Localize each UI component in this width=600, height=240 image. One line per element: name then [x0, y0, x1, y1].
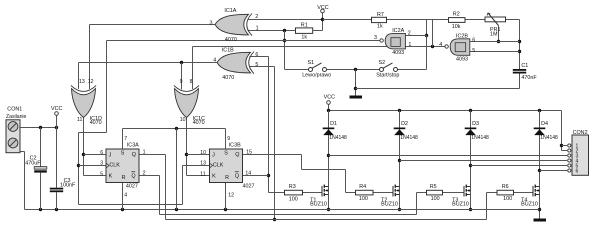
junction C1 bottom net — [354, 87, 357, 90]
junction T2 drain tap — [398, 159, 401, 162]
junction T4 drain tap — [538, 169, 541, 172]
svg-text:4093: 4093 — [456, 56, 468, 62]
junction rail D2 — [398, 109, 401, 112]
svg-text:K: K — [109, 174, 113, 180]
wire to IC3A J pin6 — [84, 154, 107, 156]
svg-text:13: 13 — [79, 79, 85, 85]
transistor T3 BUZ10 — [452, 185, 470, 208]
resistor R4 100 — [356, 184, 374, 202]
wire down to IC1C pin9 — [181, 63, 183, 90]
junction clock at IC3A CLK — [77, 164, 80, 167]
wire T1 drain to CON2 pin3 — [329, 155, 568, 157]
svg-text:4027: 4027 — [243, 184, 255, 190]
wire C2 top lead — [40, 128, 42, 167]
svg-text:D2: D2 — [401, 121, 408, 127]
wire R4 to T2 gate — [373, 192, 393, 194]
svg-text:S1: S1 — [308, 60, 315, 66]
junction rail D1 — [327, 109, 330, 112]
wire VCC1 stub — [56, 115, 58, 127]
wire CON2 pin1 stub — [562, 145, 568, 147]
wire IC1B pin4 to IC1D pin13 — [79, 63, 219, 90]
connector CON1 Zasilanie — [6, 106, 27, 152]
svg-text:100: 100 — [359, 196, 368, 202]
wire S1 to S2 — [327, 69, 380, 71]
svg-text:10: 10 — [180, 117, 186, 123]
junction rail D4 — [538, 109, 541, 112]
svg-text:14: 14 — [245, 171, 251, 177]
svg-text:1M: 1M — [490, 32, 498, 38]
svg-text:R1: R1 — [301, 23, 308, 29]
junction IC2A pin2 — [425, 34, 428, 37]
svg-text:11: 11 — [200, 171, 205, 177]
wire S chain down to ground bus — [176, 129, 178, 210]
diode D4 1N4148 — [534, 121, 558, 141]
svg-text:100: 100 — [289, 196, 298, 202]
svg-text:Q: Q — [131, 173, 135, 179]
wire T2 drain to CON2 pin4 — [400, 160, 568, 162]
svg-text:R6: R6 — [502, 184, 509, 190]
svg-text:13: 13 — [200, 160, 206, 166]
junction wiper on pin6 row — [497, 40, 500, 43]
svg-text:D3: D3 — [472, 121, 479, 127]
wire IC3B R pin12 to ground — [225, 183, 227, 210]
svg-text:IC2A: IC2A — [392, 28, 404, 34]
svg-text:4070: 4070 — [225, 37, 237, 43]
resistor R1 1k — [296, 23, 313, 41]
svg-text:IC1A: IC1A — [224, 8, 236, 14]
junction ground bus — [121, 208, 124, 211]
wire clock to IC3A CLK pin3 — [79, 165, 107, 167]
wire R5 to T3 gate — [443, 192, 465, 194]
svg-text:Q: Q — [132, 152, 136, 158]
svg-text:6: 6 — [100, 150, 103, 156]
resistor R5 100 — [427, 184, 443, 202]
junction ground bus — [55, 208, 58, 211]
junction IC3B J node — [185, 153, 188, 156]
svg-text:4070: 4070 — [193, 120, 205, 126]
svg-text:CON2: CON2 — [573, 130, 588, 136]
junction S chain ground branch — [175, 127, 178, 130]
wire D4/T4 column vertical — [539, 111, 541, 219]
wire R3 to T1 gate — [303, 192, 323, 194]
svg-text:R5: R5 — [430, 184, 437, 190]
svg-text:100nF: 100nF — [60, 182, 76, 188]
svg-text:10k: 10k — [452, 24, 461, 30]
wire C3 bottom lead — [56, 192, 58, 209]
svg-text:470uF: 470uF — [25, 160, 41, 166]
svg-text:J: J — [109, 152, 112, 158]
wire to IC3B J pin10 — [187, 154, 210, 156]
junction IC3A J node — [82, 153, 85, 156]
svg-text:R: R — [122, 175, 126, 181]
junction C2 top — [39, 126, 42, 129]
svg-text:C1: C1 — [521, 63, 528, 69]
svg-text:Start/stop: Start/stop — [376, 73, 399, 79]
svg-text:BUZ10: BUZ10 — [452, 201, 469, 207]
svg-text:100: 100 — [503, 196, 512, 202]
svg-text:100: 100 — [431, 196, 440, 202]
vcc symbol (left) — [51, 106, 62, 115]
svg-text:R7: R7 — [377, 12, 384, 18]
svg-text:1N4148: 1N4148 — [540, 135, 558, 141]
svg-text:Q: Q — [235, 152, 239, 158]
junction clock line at x284.5 — [283, 39, 286, 42]
svg-text:8: 8 — [190, 79, 193, 85]
wire IC3A Q_bar pin2 to bus — [139, 176, 427, 215]
svg-text:3: 3 — [374, 35, 377, 41]
resistor R6 100 — [497, 184, 514, 202]
wire C3 top lead — [56, 128, 58, 188]
svg-text:4: 4 — [213, 58, 216, 64]
wire R7 right to R2 — [387, 19, 449, 21]
switch S2 — [376, 60, 399, 79]
junction R2 branch on pin4 net — [431, 45, 434, 48]
junction T1 drain tap — [327, 154, 330, 157]
svg-text:R2: R2 — [453, 12, 460, 18]
svg-text:4027: 4027 — [126, 184, 138, 190]
xor gate IC1A (4070) — [210, 8, 259, 43]
svg-text:3: 3 — [100, 160, 103, 166]
diode D1 1N4148 — [323, 121, 347, 141]
nand gate IC2A (4093) — [374, 28, 411, 56]
svg-text:5: 5 — [472, 48, 475, 54]
svg-text:J: J — [212, 152, 215, 158]
svg-text:K: K — [212, 174, 216, 180]
svg-text:CLK: CLK — [109, 162, 120, 168]
xor gate IC1B (4070) — [213, 48, 258, 82]
connector CON2 — [568, 130, 589, 175]
wire IC1A pin2 to VCC node — [248, 19, 323, 21]
svg-text:6: 6 — [576, 168, 579, 174]
svg-text:4093: 4093 — [392, 50, 404, 56]
wire IC2B pin4 to IC2A pin1 and IC1C pin8 — [193, 47, 445, 90]
wire R1 node to S1 — [285, 69, 309, 71]
svg-text:4070: 4070 — [222, 75, 234, 81]
diode D3 1N4148 — [465, 121, 489, 141]
svg-text:IC3A: IC3A — [127, 143, 139, 149]
svg-text:2: 2 — [143, 171, 146, 177]
wire R1 node down to S1 — [284, 31, 286, 70]
wire switch common to ground bar — [355, 70, 357, 96]
transistor T4 BUZ10 — [521, 185, 539, 208]
svg-text:IC2B: IC2B — [456, 33, 468, 39]
wire PR1 wiper down — [498, 26, 500, 42]
svg-text:4070: 4070 — [90, 120, 102, 126]
svg-text:4: 4 — [439, 42, 442, 48]
junction C1 net at pin5 row — [518, 50, 521, 53]
svg-text:1N4148: 1N4148 — [329, 135, 347, 141]
nand gate IC2B (4093) — [439, 33, 475, 62]
flip-flop IC3B (4027) — [200, 136, 254, 198]
wire D1/T1 column vertical — [328, 111, 330, 210]
wire R2 left branch down — [432, 20, 434, 47]
junction R1 left node — [283, 29, 286, 32]
svg-text:IC3B: IC3B — [229, 143, 241, 149]
svg-text:CLK: CLK — [213, 162, 224, 168]
junction T3 source on ground bus — [469, 208, 472, 211]
wire IC3A Q pin1 to QA bus — [139, 155, 497, 220]
junction C1 net at pin6 row — [518, 40, 521, 43]
wire S2 right up to IC2A pin2 net — [398, 36, 427, 70]
ground bar (bottom right) — [534, 219, 547, 222]
flip-flop IC3A (4027) — [100, 136, 145, 198]
wire down to IC2A pin2 — [426, 20, 428, 36]
junction ground bus — [224, 208, 227, 211]
wire T3 drain to CON2 pin5 — [471, 165, 568, 167]
junction QA bus at pin5 — [273, 218, 276, 221]
svg-text:3: 3 — [210, 21, 213, 27]
switch S1 — [302, 60, 331, 79]
junction VCC node top — [321, 18, 324, 21]
resistor R7 1k — [372, 12, 387, 30]
junction ground bus — [39, 208, 42, 211]
capacitor C3 100nF — [50, 178, 76, 192]
wire IC3B Q_bar pin14 — [243, 175, 269, 177]
resistor R2 10k — [449, 12, 466, 31]
potentiometer PR1 1M — [485, 13, 506, 38]
capacitor C2 470uF — [25, 155, 47, 172]
svg-text:IC1B: IC1B — [222, 48, 234, 54]
svg-text:2: 2 — [408, 30, 411, 36]
wire IC1A pin1 to R1 — [248, 30, 296, 32]
svg-text:Lewo/prawo: Lewo/prawo — [302, 73, 331, 79]
svg-text:S: S — [224, 151, 228, 157]
svg-text:1N4148: 1N4148 — [400, 135, 418, 141]
wire C1 bottom return — [356, 73, 520, 89]
svg-text:1N4148: 1N4148 — [471, 135, 489, 141]
svg-text:S2: S2 — [379, 60, 386, 66]
svg-text:7: 7 — [124, 136, 127, 142]
svg-text:BUZ10: BUZ10 — [310, 201, 327, 207]
svg-text:1: 1 — [143, 150, 146, 156]
svg-text:R: R — [225, 175, 229, 181]
svg-text:10: 10 — [200, 150, 206, 156]
wire IC2B pin6 row — [470, 41, 520, 43]
svg-text:1k: 1k — [377, 24, 383, 30]
junction IC1B out to IC1C pin9 — [180, 61, 183, 64]
wire ground bus — [20, 152, 540, 210]
svg-text:12: 12 — [228, 192, 234, 198]
svg-text:BUZ10: BUZ10 — [521, 201, 538, 207]
wire R1 right to VCC — [313, 13, 323, 31]
transistor T1 BUZ10 — [310, 185, 328, 208]
xor gate IC1D (4070) — [71, 79, 102, 126]
svg-text:R4: R4 — [359, 184, 366, 190]
svg-text:5: 5 — [100, 171, 103, 177]
wire IC3B Q pin15 to R4 — [243, 155, 356, 193]
svg-text:1: 1 — [256, 26, 259, 32]
capacitor C1 470nF — [513, 63, 538, 81]
wire VCC node to R7 — [323, 19, 372, 21]
svg-text:D4: D4 — [541, 121, 548, 127]
wire IC1C pin10 to IC3B J/K — [187, 117, 210, 176]
transistor T2 BUZ10 — [381, 185, 399, 208]
svg-text:4: 4 — [124, 192, 127, 198]
wire IC1B pin6 to Q14 node and R3 — [250, 57, 285, 193]
svg-text:Zasilanie: Zasilanie — [6, 114, 27, 120]
svg-text:VCC: VCC — [324, 95, 335, 101]
junction T4 source on ground bus — [538, 208, 541, 211]
wire IC2A pin2 — [406, 35, 427, 37]
svg-text:1k: 1k — [301, 35, 307, 41]
wire IC2B pin5 row — [470, 51, 520, 53]
wire IC3A S pin7 chain to IC3B S pin9 — [123, 129, 226, 150]
wire IC1A output pin3 to IC1D pin12 — [90, 25, 217, 90]
wire IC1D pin11 to IC3A J/K — [84, 117, 107, 176]
svg-text:6: 6 — [255, 52, 258, 58]
wire T4 drain to CON2 pin6 — [540, 170, 568, 172]
vcc symbol (rail) — [324, 95, 335, 105]
diode D2 1N4148 — [394, 121, 418, 141]
svg-text:5: 5 — [255, 62, 258, 68]
svg-text:D1: D1 — [330, 121, 337, 127]
svg-text:11: 11 — [77, 117, 82, 123]
svg-text:S: S — [121, 151, 125, 157]
junction T1 source on ground bus — [327, 208, 330, 211]
junction switch common — [354, 68, 357, 71]
wire D2/T2 column vertical — [399, 111, 401, 210]
svg-text:6: 6 — [472, 37, 475, 43]
svg-text:2: 2 — [255, 14, 258, 20]
svg-text:CON1: CON1 — [7, 106, 22, 112]
wire PR1 right to C1 top — [506, 20, 520, 70]
svg-text:1: 1 — [408, 42, 411, 48]
junction ground bus — [175, 208, 178, 211]
junction T2 source on ground bus — [398, 208, 401, 211]
junction T3 drain tap — [469, 164, 472, 167]
junction rail D3 — [469, 109, 472, 112]
ground bar (switch net) — [350, 96, 363, 99]
wire VCC rail — [329, 104, 568, 150]
wire R6 to T4 gate — [514, 192, 534, 194]
wire IC1B pin5 down to QA bus — [250, 67, 275, 220]
junction VCC/C3 top — [55, 126, 58, 129]
svg-text:470nF: 470nF — [521, 75, 537, 81]
junction Q14 node — [267, 174, 270, 177]
svg-text:9: 9 — [227, 136, 230, 142]
wire D3/T3 column vertical — [470, 111, 472, 210]
svg-text:12: 12 — [88, 79, 94, 85]
resistor R3 100 — [285, 184, 303, 202]
wire clock IC2A pin3 output — [79, 41, 380, 205]
junction CON2 pin1 — [560, 144, 563, 147]
svg-text:VCC: VCC — [317, 5, 328, 11]
svg-text:Q: Q — [235, 173, 239, 179]
svg-text:9: 9 — [180, 79, 183, 85]
wire IC3A R pin4 to ground — [122, 183, 124, 210]
xor gate IC1C (4070) — [174, 79, 205, 126]
wire C2 bottom lead — [40, 173, 42, 210]
svg-text:BUZ10: BUZ10 — [381, 201, 398, 207]
wire R2 to PR1 — [465, 19, 485, 21]
vcc symbol (top middle) — [317, 5, 328, 13]
svg-text:R3: R3 — [289, 184, 296, 190]
svg-text:15: 15 — [246, 150, 252, 156]
wire CON1 pin1 to VCC — [20, 127, 57, 129]
svg-text:VCC: VCC — [51, 106, 62, 112]
